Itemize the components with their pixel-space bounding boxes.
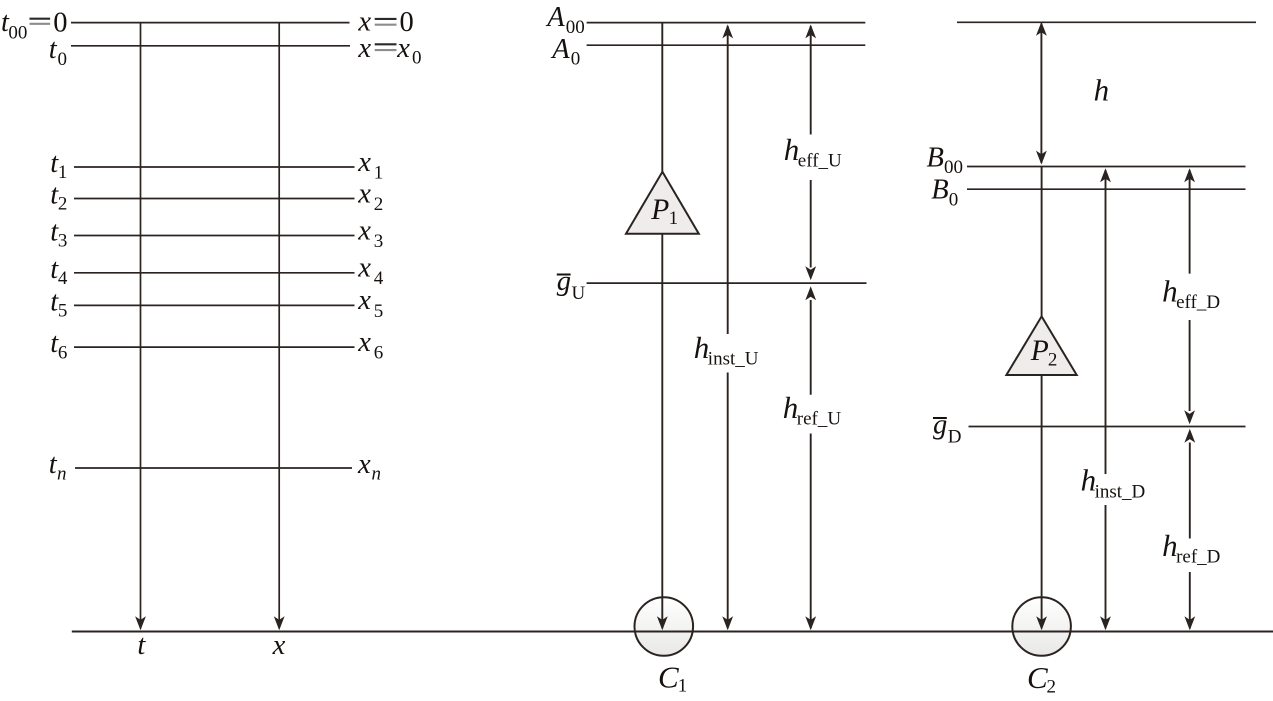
label x5 xyxy=(357,285,383,322)
label B00 xyxy=(927,142,964,178)
svg-text:6: 6 xyxy=(58,342,68,363)
svg-text:A: A xyxy=(545,2,565,33)
label P1 xyxy=(650,194,678,229)
svg-text:ref_U: ref_U xyxy=(797,409,842,430)
label C1 xyxy=(658,660,687,697)
svg-text:1: 1 xyxy=(678,676,688,697)
label t2 xyxy=(50,180,67,215)
label h_eff_U xyxy=(784,132,842,172)
label C2 xyxy=(1027,660,1056,698)
label h_inst_D xyxy=(1081,463,1146,503)
wire: horizontal line t4 / x4 xyxy=(74,272,355,274)
label x (axis) xyxy=(272,630,286,661)
arrow h_ref_D (double-headed vertical) xyxy=(1184,429,1195,631)
svg-text:P: P xyxy=(1030,335,1049,367)
label x3 xyxy=(357,215,383,252)
svg-text:U: U xyxy=(572,283,586,304)
label t1 xyxy=(50,148,67,183)
svg-text:x: x xyxy=(357,33,371,64)
svg-text:t: t xyxy=(137,630,146,661)
label xn xyxy=(357,449,381,485)
label h_ref_D xyxy=(1162,528,1220,568)
label t (axis) xyxy=(137,630,146,661)
svg-text:g: g xyxy=(933,410,947,441)
svg-text:t: t xyxy=(49,34,58,65)
svg-text:6: 6 xyxy=(374,343,384,364)
arrow h_inst_D (double-headed vertical) xyxy=(1100,168,1111,630)
svg-text:2: 2 xyxy=(58,194,68,215)
svg-text:n: n xyxy=(57,464,67,485)
svg-text:n: n xyxy=(372,464,382,485)
svg-text:inst_U: inst_U xyxy=(708,349,759,370)
wire: level line B00 xyxy=(967,166,1246,168)
wire: vertical axis line t xyxy=(135,23,146,631)
svg-text:0: 0 xyxy=(571,49,581,70)
svg-text:ref_D: ref_D xyxy=(1176,547,1220,568)
label A00 xyxy=(545,2,585,38)
label A0 xyxy=(550,34,580,70)
label t6 xyxy=(50,328,67,363)
svg-text:4: 4 xyxy=(58,268,68,289)
circle C1 (antenna base marker) xyxy=(635,597,694,656)
svg-text:D: D xyxy=(948,427,962,448)
label t3 xyxy=(50,217,67,252)
label t0 xyxy=(49,34,67,70)
svg-text:x: x xyxy=(272,630,286,661)
svg-text:x: x xyxy=(357,285,371,316)
wire: horizontal line t00=0 / x=0 xyxy=(71,22,350,24)
svg-text:x: x xyxy=(357,147,371,178)
circle C2 (antenna base marker) xyxy=(1012,597,1071,656)
label x=0 xyxy=(357,7,413,39)
wire: level line B0 xyxy=(967,188,1246,190)
label x1 xyxy=(357,147,383,184)
wire: horizontal line t0 / x=x0 xyxy=(71,45,350,47)
arrow h_inst_U (double-headed vertical) xyxy=(722,24,733,630)
svg-text:x: x xyxy=(357,253,371,284)
svg-text:eff_D: eff_D xyxy=(1176,292,1220,313)
ground surface line xyxy=(72,630,1273,632)
wire: horizontal line t1 / x1 xyxy=(74,166,355,168)
svg-text:0: 0 xyxy=(412,48,422,69)
svg-text:1: 1 xyxy=(58,162,68,183)
label t4 xyxy=(50,254,68,289)
ground line segment over circle C2 xyxy=(1012,630,1071,632)
label gD (mean ground) xyxy=(933,410,961,448)
svg-text:2: 2 xyxy=(1047,677,1057,697)
svg-text:0: 0 xyxy=(949,189,959,210)
wire: horizontal line t2 / x2 xyxy=(74,198,355,200)
label x2 xyxy=(357,178,383,215)
svg-text:2: 2 xyxy=(374,194,384,215)
wire: level line A0 xyxy=(587,44,866,46)
label gU (mean ground) xyxy=(557,266,586,304)
svg-text:C: C xyxy=(658,660,679,695)
svg-text:5: 5 xyxy=(374,301,384,322)
svg-text:3: 3 xyxy=(58,231,68,252)
wire: vertical axis line x xyxy=(274,23,285,631)
label t5 xyxy=(50,286,67,321)
svg-text:1: 1 xyxy=(374,162,384,183)
wire: level line gU (mean ground) xyxy=(587,282,867,284)
svg-text:1: 1 xyxy=(669,208,679,229)
label t00=0 xyxy=(1,7,67,44)
label h_inst_U xyxy=(694,330,759,370)
svg-text:x: x xyxy=(357,215,371,246)
svg-text:B: B xyxy=(931,175,948,206)
svg-text:C: C xyxy=(1027,660,1048,695)
svg-text:h: h xyxy=(1094,72,1110,107)
label x=x0 xyxy=(357,33,421,69)
svg-text:eff_U: eff_U xyxy=(798,151,842,172)
svg-text:2: 2 xyxy=(1048,350,1058,371)
label h_eff_D xyxy=(1162,274,1220,314)
svg-text:B: B xyxy=(927,142,944,173)
label B0 xyxy=(931,175,958,211)
wire: level line gD (mean ground) xyxy=(969,426,1246,428)
wire: antenna pole line P1 (vertical) xyxy=(657,23,668,631)
wire: horizontal line t3 / x3 xyxy=(74,235,355,237)
svg-text:x: x xyxy=(357,327,371,358)
svg-text:4: 4 xyxy=(374,268,384,289)
svg-text:x: x xyxy=(357,178,371,209)
label P2 xyxy=(1030,335,1058,371)
svg-text:0: 0 xyxy=(58,49,68,70)
svg-text:g: g xyxy=(557,266,571,297)
ground line segment over circle C1 xyxy=(635,630,694,632)
svg-text:inst_D: inst_D xyxy=(1095,481,1146,502)
wire: satellite/reference top line xyxy=(957,21,1256,23)
arrow h_eff_U (double-headed vertical) xyxy=(805,24,816,280)
wire: horizontal line t6 / x6 xyxy=(74,346,355,348)
svg-text:3: 3 xyxy=(374,231,384,252)
svg-text:P: P xyxy=(650,194,669,226)
svg-text:x: x xyxy=(357,449,371,480)
label h xyxy=(1094,72,1110,107)
label tn xyxy=(49,449,67,485)
triangle P1 (antenna symbol) xyxy=(626,172,699,234)
wire: horizontal line t5 / x5 xyxy=(74,304,355,306)
triangle P2 (antenna symbol) xyxy=(1006,316,1076,375)
svg-text:A: A xyxy=(550,34,570,65)
svg-text:5: 5 xyxy=(58,301,68,322)
label x4 xyxy=(357,253,384,290)
wire: antenna pole line P2 (vertical) xyxy=(1036,167,1047,631)
arrow h (double-headed vertical, top line to B00) xyxy=(1036,22,1047,165)
label x6 xyxy=(357,327,383,364)
arrow h_eff_D (double-headed vertical) xyxy=(1184,168,1195,424)
svg-text:00: 00 xyxy=(8,23,27,44)
wire: horizontal line tn / xn xyxy=(75,467,352,469)
wire: level line A00 xyxy=(587,22,866,24)
svg-text:x: x xyxy=(396,33,410,64)
label h_ref_U xyxy=(783,390,842,430)
arrow h_ref_U (double-headed vertical) xyxy=(805,286,816,630)
